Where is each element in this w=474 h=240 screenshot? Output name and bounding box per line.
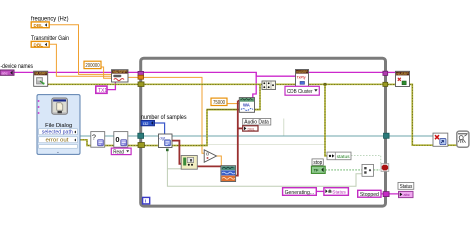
svg-text:DBL: DBL (34, 42, 44, 47)
poly selector CDB Cluster (285, 86, 319, 95)
svg-text:abc: abc (404, 193, 410, 197)
loop condition terminal (381, 164, 389, 172)
constant Stopped (358, 190, 381, 198)
svg-text:selected path: selected path (42, 130, 73, 136)
wire boolean green (325, 156, 381, 170)
svg-text:CDB Cluster: CDB Cluster (287, 89, 313, 95)
wire session magenta (14, 72, 399, 194)
error junction dot (324, 83, 327, 86)
VI open file (114, 132, 128, 148)
svg-text:⌄: ⌄ (56, 149, 60, 154)
VI read binary file (159, 134, 173, 151)
control DBL gain (31, 41, 49, 47)
tunnel error left (138, 82, 144, 87)
express VI File Dialog (37, 95, 80, 155)
svg-text:File Dialog: File Dialog (45, 123, 72, 129)
faint frame lines (200, 119, 325, 145)
tunnel orange left (138, 75, 144, 79)
ring constant Read (111, 148, 131, 155)
node or (362, 164, 374, 176)
wire error olive (48, 84, 457, 156)
indicator Status string (399, 191, 414, 197)
label Audio Data (243, 118, 271, 125)
svg-text:DBL: DBL (34, 23, 44, 28)
tunnel path left (138, 133, 144, 138)
tunnel error right (383, 82, 388, 86)
local variable Status (324, 188, 349, 196)
control DBL frequency (31, 22, 49, 28)
VI close file (433, 133, 448, 146)
svg-text:error out: error out (46, 138, 70, 144)
wire blue int (155, 123, 165, 134)
svg-text:Audio Data: Audio Data (244, 120, 269, 126)
svg-text:TX1: TX1 (98, 88, 107, 94)
wire orange numerics (50, 25, 240, 166)
indicator Audio Data (243, 126, 258, 132)
svg-text:Status: Status (332, 190, 346, 196)
svg-text:Status: Status (400, 184, 413, 190)
wire EOF boolean pale (167, 149, 362, 186)
control stop label (312, 159, 323, 166)
svg-text:DBL: DBL (248, 127, 255, 131)
constant Generating (283, 188, 317, 196)
indicator waveform sound (221, 166, 236, 182)
svg-text:status: status (337, 154, 351, 160)
node unbundle status (327, 152, 351, 160)
wire teal file refnum (80, 135, 433, 137)
control string device names (0, 70, 14, 75)
svg-text:0: 0 (115, 135, 119, 144)
svg-text:Read: Read (113, 149, 124, 155)
svg-text:niUSRP: niUSRP (113, 70, 128, 74)
VI niUSRP Configure Signal (112, 70, 129, 82)
svg-text:200000: 200000 (85, 63, 99, 69)
control I32 number of samples (141, 120, 155, 125)
tunnel string right bottom (383, 192, 389, 197)
constant 75000 (211, 98, 227, 106)
svg-text:stop: stop (313, 160, 322, 166)
while loop border (141, 58, 386, 206)
svg-text:i: i (145, 199, 146, 205)
tunnel path right (384, 133, 390, 138)
svg-text:TF: TF (314, 168, 319, 173)
iteration terminal i (143, 197, 150, 204)
svg-text:-device names: -device names (1, 63, 34, 70)
svg-text:niUSRP: niUSRP (35, 72, 48, 76)
node merge errors (262, 81, 276, 90)
constant TX1 (96, 86, 108, 94)
svg-text:niUSRP: niUSRP (397, 72, 410, 76)
svg-text:Generating...: Generating... (285, 190, 315, 196)
wire maroon data (172, 101, 243, 176)
constant 200000 (84, 61, 101, 69)
VI niUSRP Open Tx Session (34, 71, 48, 86)
label Status (398, 182, 414, 189)
node triangle scale (204, 150, 216, 163)
tunnel session left (138, 71, 144, 75)
svg-text:niUSRP: niUSRP (296, 70, 308, 74)
svg-text:TxPty: TxPty (297, 76, 306, 80)
control stop TF (311, 166, 325, 173)
VI scale converter yellow (181, 156, 197, 170)
svg-text:WA: WA (243, 103, 250, 108)
svg-text:abc: abc (2, 71, 8, 75)
svg-text:Stopped: Stopped (360, 192, 379, 198)
tunnel error2 left (138, 143, 144, 148)
svg-text:I32: I32 (143, 121, 148, 126)
svg-text:75000: 75000 (213, 100, 225, 106)
VI niUSRP Close Session (396, 71, 410, 86)
svg-text:?: ? (92, 135, 96, 142)
tunnel session right (383, 71, 388, 75)
VI check file exists (91, 132, 105, 148)
VI simple error handler (457, 131, 469, 147)
VI resampler (239, 98, 254, 113)
VI niUSRP Write Tx Data (296, 70, 309, 87)
